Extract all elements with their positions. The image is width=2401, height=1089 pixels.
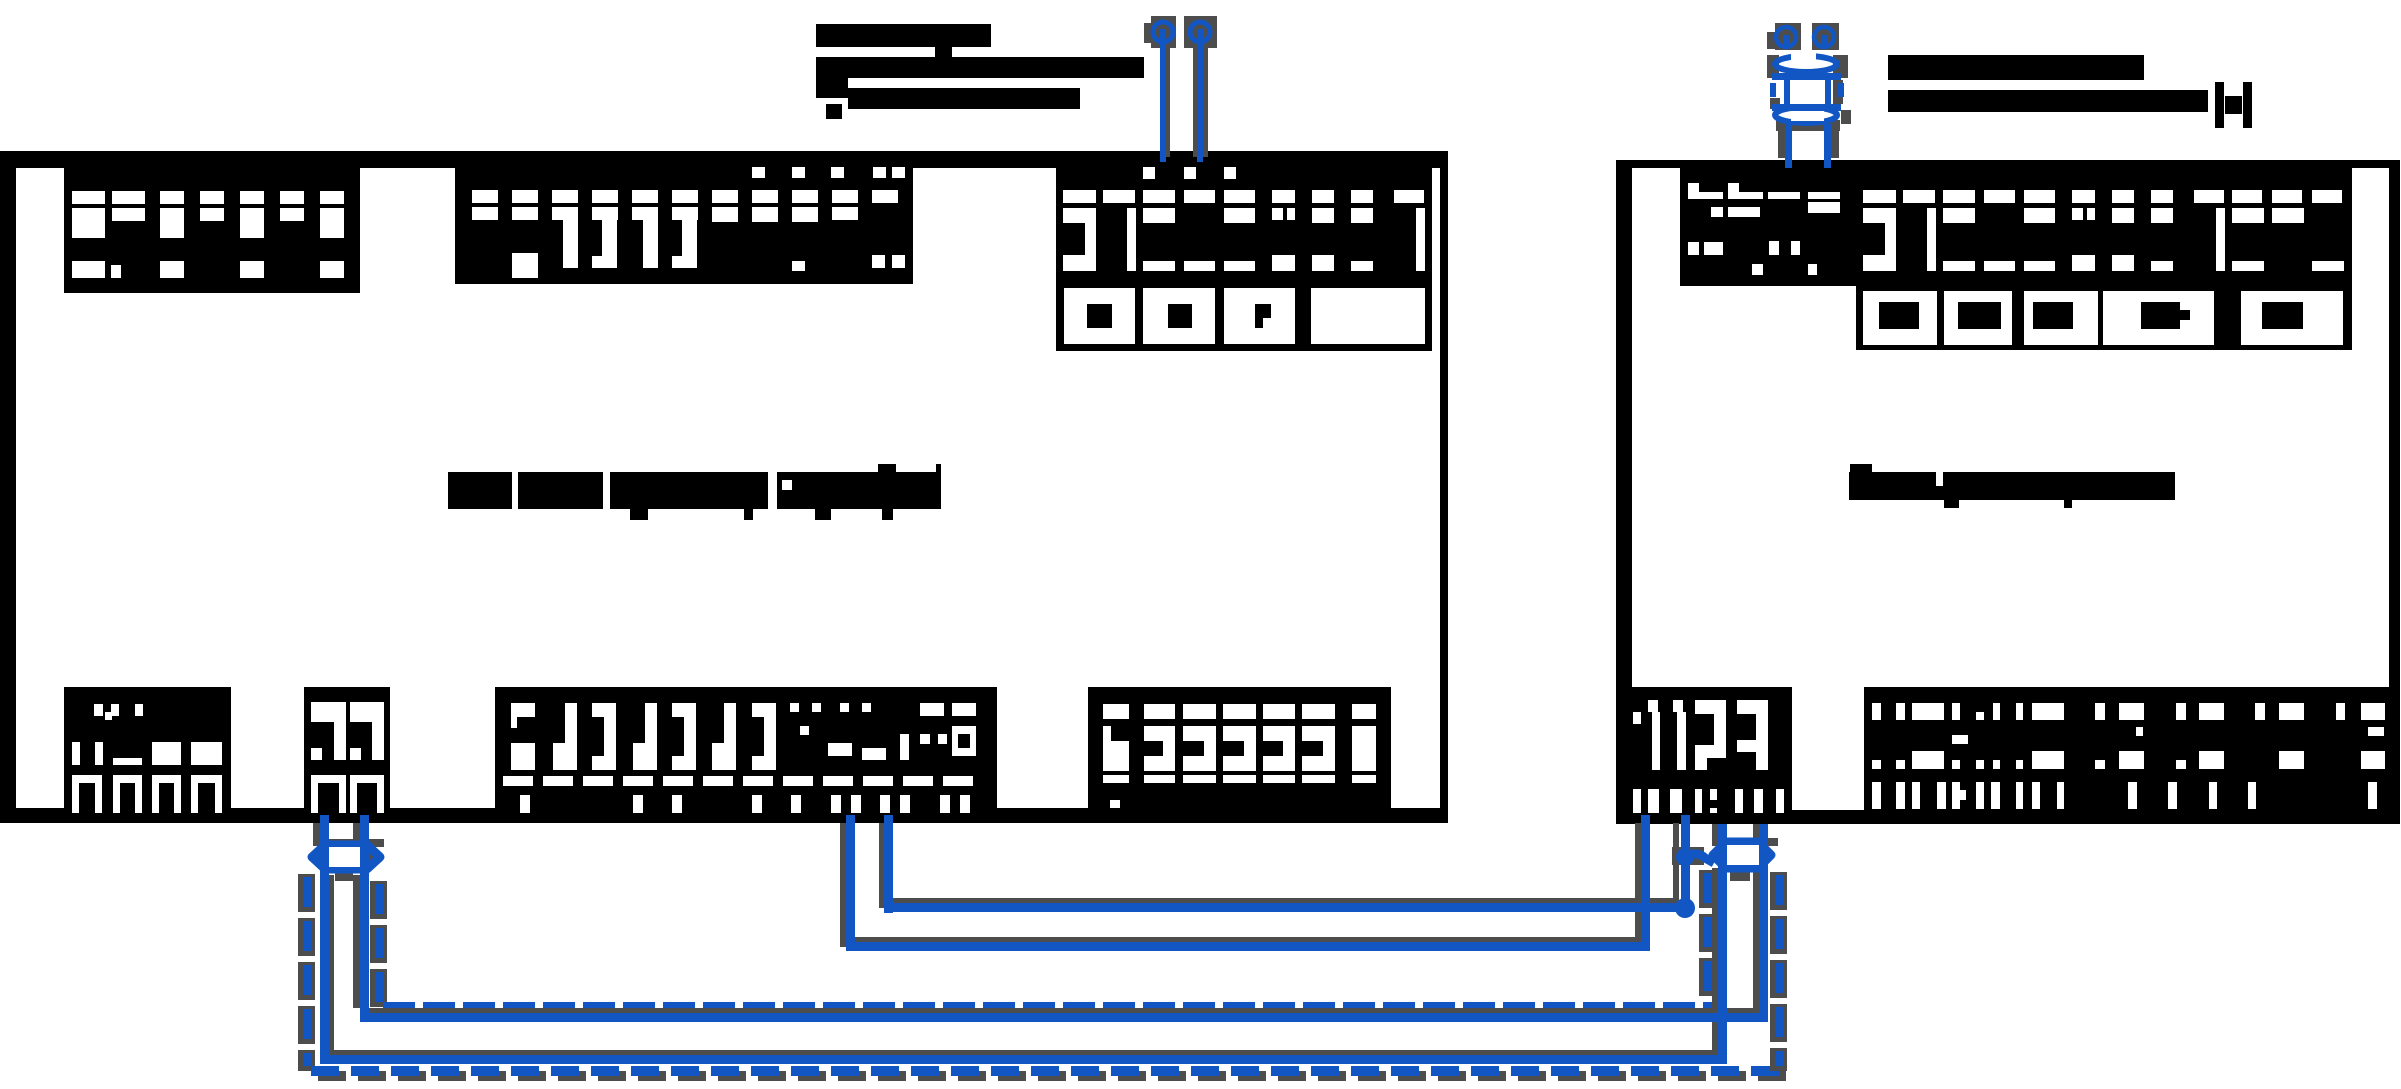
- terminal strip X5 (left box, bottom, cable pair): [304, 687, 390, 813]
- terminal strip X2 (left box, top-middle): [455, 167, 913, 284]
- cable grommet (right): [1672, 838, 1778, 881]
- terminal strip X10 (right box, top): [1680, 168, 2352, 286]
- controller box (left enclosure): [0, 151, 1448, 823]
- sensor B1 (temperature sensor icon): [1767, 23, 1851, 168]
- terminal strip X11 (right box, bottom-left): [1616, 687, 1792, 813]
- dashed screen path (outer loop): [298, 872, 1787, 1081]
- wire: shield drain branch to grommet (right): [1676, 848, 1714, 866]
- cable grommet (left): [312, 839, 384, 881]
- terminal strip X12 (right box, bottom-right): [1864, 687, 2389, 813]
- label: controller model text: [448, 464, 941, 520]
- wire shadows (gray): [313, 823, 1759, 1055]
- annotation text (top-right): [1888, 55, 2252, 128]
- terminal strip X4 (left box, bottom-left): [64, 687, 231, 813]
- annotation text (top-left): [816, 24, 1144, 119]
- sensor lead terminal pins (top of left box): [1144, 16, 1217, 162]
- terminal strip X3 (left box, top-right): [1056, 167, 1432, 283]
- relay sockets K1-K5 (right box): [1856, 286, 2352, 350]
- relay sockets K1-K4 (left box): [1056, 283, 1432, 351]
- dashed screen path (inner loop): [370, 870, 1716, 1021]
- expansion module box (right enclosure): [1616, 160, 2400, 824]
- wire: bus A (X6 to X11): [846, 815, 1650, 951]
- wire: shield pair lead 1 (X5 to grommet to X11): [320, 815, 1727, 1064]
- wire: bus B (X6 to X11): [884, 815, 1695, 918]
- terminal strip X7 (left box, bottom-right): [1088, 687, 1391, 813]
- wire: shield pair lead 2 (X5 to grommet to X11): [360, 815, 1768, 1022]
- label: expansion module text: [1849, 464, 2175, 508]
- terminal strip X1 (left box, top-left): [64, 168, 360, 293]
- terminal strip X6 (left box, bottom-middle): [495, 687, 997, 813]
